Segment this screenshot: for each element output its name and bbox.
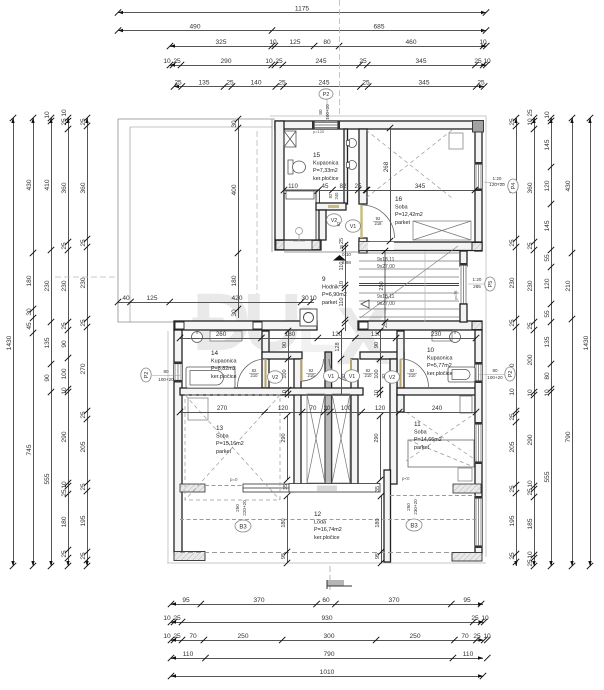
svg-text:V2: V2	[389, 375, 396, 381]
svg-text:82: 82	[381, 373, 386, 379]
svg-text:10: 10	[483, 58, 491, 65]
nightstand room16	[449, 133, 463, 149]
cabinet room10	[432, 331, 452, 341]
svg-text:230+20: 230+20	[413, 499, 418, 515]
svg-text:p=75: p=75	[453, 290, 458, 300]
room 13 label	[216, 425, 244, 455]
svg-text:Hodnik: Hodnik	[322, 285, 339, 291]
svg-text:285: 285	[473, 284, 481, 289]
svg-text:290: 290	[527, 434, 534, 445]
svg-text:15: 15	[313, 152, 321, 159]
svg-text:290: 290	[374, 433, 380, 442]
svg-text:25: 25	[80, 411, 87, 419]
svg-text:25: 25	[509, 413, 516, 421]
wall left upper	[275, 121, 284, 240]
room16 bottom posts	[472, 243, 482, 251]
svg-text:10: 10	[479, 39, 487, 46]
svg-text:25: 25	[80, 118, 87, 126]
svg-text:10: 10	[527, 480, 534, 488]
svg-text:B3: B3	[239, 525, 247, 531]
svg-text:1430: 1430	[6, 335, 13, 350]
hodnik north thin edge	[284, 251, 359, 253]
svg-text:70: 70	[310, 405, 317, 412]
B3 annotation left	[235, 500, 251, 532]
B3 annotation right	[406, 499, 422, 531]
svg-text:140: 140	[250, 80, 261, 87]
svg-text:P=7,33m2: P=7,33m2	[313, 168, 338, 174]
svg-text:210: 210	[565, 280, 572, 291]
room 16 label	[395, 196, 423, 226]
dim col right colE	[583, 115, 593, 569]
svg-text:16: 16	[395, 196, 403, 203]
svg-text:25: 25	[527, 242, 534, 250]
P2 annotation right wall	[478, 367, 515, 381]
label V1 room16	[346, 220, 361, 232]
dim col dim loggia R	[375, 486, 384, 566]
svg-text:120: 120	[544, 278, 551, 289]
dim row bottom rowA	[168, 597, 485, 607]
svg-text:240: 240	[432, 405, 443, 412]
svg-text:180: 180	[61, 516, 68, 527]
svg-text:490: 490	[189, 24, 200, 31]
svg-text:25: 25	[527, 559, 534, 567]
svg-text:35: 35	[283, 484, 289, 490]
door spec 92/218	[373, 216, 383, 226]
svg-text:P2: P2	[323, 92, 330, 98]
window room14 left	[174, 362, 183, 383]
terrace outline	[118, 119, 275, 322]
room16 bottom hatch post	[359, 242, 369, 251]
svg-text:70: 70	[189, 633, 197, 640]
door V2 room10	[401, 359, 429, 387]
svg-text:230: 230	[44, 280, 51, 291]
shower partition room15	[284, 190, 320, 240]
svg-text:685: 685	[373, 24, 384, 31]
svg-text:80: 80	[492, 368, 498, 373]
dim col dim hodnik v	[339, 238, 348, 331]
svg-text:410: 410	[44, 179, 51, 190]
svg-text:25: 25	[474, 58, 482, 65]
dim row top row5	[171, 80, 488, 90]
dim row bottom rowE	[168, 669, 486, 679]
label V2 right	[385, 371, 400, 383]
svg-text:25: 25	[80, 483, 87, 491]
svg-text:345: 345	[415, 183, 426, 190]
svg-text:135: 135	[198, 80, 209, 87]
svg-text:10: 10	[481, 615, 489, 622]
wall niche vert	[319, 210, 326, 240]
door spec 92/210	[306, 368, 316, 378]
dim col right colC	[544, 111, 554, 569]
svg-text:10: 10	[61, 481, 68, 489]
svg-text:250: 250	[379, 281, 385, 290]
svg-text:10: 10	[61, 387, 68, 395]
svg-text:230: 230	[527, 280, 534, 291]
dim row top 490/685	[115, 24, 489, 34]
svg-text:10: 10	[44, 111, 51, 119]
svg-text:205: 205	[80, 441, 87, 452]
svg-text:80: 80	[163, 369, 169, 374]
svg-text:25: 25	[80, 239, 87, 247]
wall right lower	[475, 330, 482, 553]
window room10 right	[475, 362, 483, 383]
svg-text:25: 25	[509, 239, 516, 247]
dim row dim room16	[364, 183, 478, 193]
svg-text:1430: 1430	[583, 335, 590, 350]
svg-text:270: 270	[217, 405, 228, 412]
svg-text:100: 100	[282, 369, 288, 378]
svg-text:90: 90	[282, 342, 288, 348]
svg-text:10: 10	[544, 389, 551, 397]
door spec 82/210	[407, 368, 417, 378]
svg-text:60: 60	[322, 597, 330, 604]
wall mid band left	[174, 321, 317, 330]
svg-text:268: 268	[383, 161, 390, 172]
svg-text:9: 9	[322, 276, 326, 283]
toilet room15	[288, 160, 306, 174]
dim col right colD	[565, 115, 575, 569]
svg-text:10: 10	[427, 347, 435, 354]
svg-text:100+20: 100+20	[158, 377, 174, 382]
svg-text:P=12,42m2: P=12,42m2	[395, 212, 423, 218]
svg-text:370: 370	[388, 597, 399, 604]
svg-text:80: 80	[544, 372, 551, 380]
svg-text:90: 90	[61, 340, 68, 348]
svg-text:1:20: 1:20	[473, 277, 482, 282]
svg-text:25: 25	[471, 615, 479, 622]
shaft left box	[307, 394, 325, 483]
wall shaft mid	[325, 352, 332, 484]
svg-text:290: 290	[220, 58, 231, 65]
svg-text:230: 230	[80, 277, 87, 288]
svg-text:20: 20	[324, 405, 331, 412]
svg-text:25: 25	[509, 118, 516, 126]
svg-text:0,10: 0,10	[342, 252, 351, 257]
svg-text:2,98: 2,98	[342, 260, 351, 265]
dim col left col5	[80, 115, 90, 569]
svg-text:930: 930	[321, 615, 332, 622]
svg-text:25: 25	[61, 242, 68, 250]
svg-text:40: 40	[122, 295, 130, 302]
parapet band room13	[180, 484, 481, 494]
svg-text:P=5,77m2: P=5,77m2	[427, 363, 452, 369]
P4 annotation right	[484, 176, 518, 193]
svg-text:92: 92	[336, 221, 341, 226]
svg-text:Kupaonica: Kupaonica	[211, 359, 236, 365]
svg-text:35: 35	[375, 486, 381, 492]
svg-text:30: 30	[231, 120, 238, 128]
svg-text:110: 110	[288, 183, 298, 190]
svg-text:230: 230	[509, 277, 516, 288]
svg-text:250: 250	[237, 633, 248, 640]
wall shaft right	[351, 359, 358, 484]
svg-text:400: 400	[231, 184, 238, 195]
door spec 82/210	[363, 368, 373, 378]
label V1 left	[324, 370, 339, 382]
svg-text:220+20: 220+20	[242, 500, 247, 516]
wall corridor topR	[360, 352, 404, 359]
svg-text:Kupaonica: Kupaonica	[427, 356, 452, 362]
svg-text:V1: V1	[350, 224, 357, 230]
svg-text:13: 13	[216, 425, 224, 432]
svg-text:P=8,82m2: P=8,82m2	[211, 366, 236, 372]
svg-text:260: 260	[216, 331, 227, 338]
svg-text:25: 25	[339, 238, 345, 244]
dim col left col4	[61, 109, 71, 569]
svg-text:ker.pločice: ker.pločice	[211, 374, 236, 380]
svg-text:p<0: p<0	[402, 476, 410, 481]
svg-text:25: 25	[275, 58, 283, 65]
room15 bottom hatch posts	[276, 241, 284, 250]
stairs direction triangle	[361, 300, 369, 308]
svg-text:240: 240	[334, 192, 339, 200]
svg-text:25: 25	[509, 485, 516, 493]
svg-text:25: 25	[61, 322, 68, 330]
dim col left 1430	[6, 115, 16, 569]
svg-text:290: 290	[281, 433, 287, 442]
svg-text:25: 25	[173, 58, 181, 65]
svg-text:45: 45	[322, 183, 329, 190]
wall loggia divider	[384, 470, 391, 562]
svg-text:555: 555	[44, 473, 51, 484]
svg-text:25: 25	[174, 80, 182, 87]
svg-text:25: 25	[509, 552, 516, 560]
svg-text:55: 55	[544, 254, 551, 262]
svg-text:370: 370	[253, 597, 264, 604]
dim col dim room13 v	[281, 413, 290, 483]
svg-text:100: 100	[374, 369, 380, 378]
svg-text:345: 345	[418, 80, 429, 87]
svg-text:70: 70	[461, 633, 469, 640]
svg-text:10: 10	[544, 111, 551, 119]
svg-text:ker.pločice: ker.pločice	[314, 535, 339, 541]
svg-text:25: 25	[173, 615, 181, 622]
svg-text:10: 10	[374, 390, 380, 396]
svg-text:10: 10	[282, 390, 288, 396]
svg-text:25: 25	[278, 80, 286, 87]
vanity room15	[286, 191, 314, 199]
wall room10 left	[397, 331, 404, 388]
svg-text:345: 345	[415, 58, 426, 65]
svg-text:230: 230	[61, 280, 68, 291]
svg-text:245: 245	[318, 80, 329, 87]
washbasins niche	[347, 139, 357, 170]
corner block top right	[473, 121, 484, 133]
svg-text:55: 55	[544, 310, 551, 318]
svg-text:V1: V1	[349, 374, 356, 380]
wall top exterior	[275, 121, 482, 129]
dim col left col2	[26, 115, 36, 569]
svg-text:parket: parket	[216, 449, 231, 455]
door V2 room14	[238, 359, 266, 387]
dim col dim room16 v	[383, 125, 393, 244]
svg-text:25: 25	[359, 58, 367, 65]
svg-text:82: 82	[340, 183, 347, 190]
wall room14 right	[262, 331, 269, 388]
bed room16	[413, 221, 471, 240]
svg-text:100: 100	[341, 405, 352, 412]
svg-text:245: 245	[315, 58, 326, 65]
svg-text:45: 45	[26, 322, 33, 330]
wall room11 top	[397, 395, 404, 412]
svg-text:10: 10	[265, 58, 273, 65]
dim col dim loggia L	[281, 493, 290, 566]
svg-text:25: 25	[477, 80, 485, 87]
bed room13 dashed	[185, 395, 280, 500]
svg-text:25: 25	[527, 109, 534, 117]
cabinet room14	[210, 331, 242, 341]
svg-text:P=16,74m2: P=16,74m2	[314, 527, 342, 533]
svg-text:145: 145	[544, 139, 551, 150]
door V1 right	[329, 359, 351, 381]
svg-text:25: 25	[80, 552, 87, 560]
dim col terrace col	[231, 116, 241, 318]
wall stairwell right lower	[460, 304, 467, 322]
svg-text:25: 25	[527, 322, 534, 330]
wall niche horiz	[316, 203, 346, 210]
room 12 label	[314, 511, 342, 541]
svg-text:12: 12	[314, 511, 322, 518]
svg-text:120+20: 120+20	[489, 182, 505, 187]
svg-text:9x18,11: 9x18,11	[377, 294, 395, 300]
wall right upper	[475, 121, 482, 251]
svg-text:P=6,90m2: P=6,90m2	[322, 292, 347, 298]
svg-text:Soba: Soba	[216, 434, 229, 440]
wall room16 left top	[359, 129, 367, 204]
P2 top annotation	[318, 89, 333, 121]
wall room15 right	[344, 129, 348, 204]
nightstand room13	[188, 398, 208, 420]
door V1 left	[302, 359, 324, 381]
svg-text:80: 80	[318, 109, 323, 115]
svg-text:460: 460	[405, 39, 416, 46]
svg-text:V1: V1	[328, 374, 335, 380]
dim row bottom rowD	[168, 651, 491, 661]
shower drain room15	[293, 228, 305, 242]
dim row top row4	[163, 58, 491, 68]
svg-text:555: 555	[544, 471, 551, 482]
svg-text:10: 10	[527, 118, 534, 126]
svg-text:420: 420	[231, 295, 242, 302]
svg-text:10: 10	[163, 633, 171, 640]
svg-text:120: 120	[375, 405, 386, 412]
svg-text:P2: P2	[508, 371, 514, 378]
svg-text:30: 30	[231, 309, 238, 317]
svg-text:25: 25	[61, 118, 68, 126]
svg-text:25: 25	[80, 319, 87, 327]
wall room14 bottom	[180, 388, 363, 395]
wall corridor right	[390, 359, 397, 484]
wall stairwell right upper	[460, 251, 467, 266]
svg-text:14: 14	[211, 350, 219, 357]
room 14 label	[211, 350, 236, 380]
washbasin room14	[192, 331, 203, 343]
svg-text:92: 92	[328, 193, 333, 198]
svg-text:135: 135	[44, 337, 51, 348]
label V2 niche	[327, 214, 342, 226]
svg-text:195: 195	[509, 515, 516, 526]
svg-text:10: 10	[527, 551, 534, 559]
svg-text:P5: P5	[488, 281, 494, 288]
P5 annotation right	[453, 277, 495, 300]
svg-text:25: 25	[473, 633, 481, 640]
svg-text:430: 430	[26, 179, 33, 190]
thin offset outline around building	[167, 116, 486, 563]
P2 annotation left wall	[141, 368, 180, 382]
top wall posts/window	[276, 121, 341, 129]
svg-text:250: 250	[406, 503, 411, 511]
room 10 label	[427, 347, 452, 377]
loggia bottom corner L	[174, 552, 205, 561]
svg-text:9x27,00: 9x27,00	[377, 301, 395, 307]
washing machine hodnik	[300, 309, 317, 326]
svg-text:25: 25	[61, 550, 68, 558]
wall left lower	[174, 330, 182, 552]
mid band posts	[175, 322, 482, 330]
wall room10 bottom	[397, 388, 476, 395]
svg-text:360: 360	[527, 182, 534, 193]
svg-text:180: 180	[375, 518, 381, 527]
svg-text:100+20: 100+20	[325, 104, 330, 120]
dim col dim corr v2	[374, 413, 383, 483]
svg-text:430: 430	[565, 180, 572, 191]
svg-text:745: 745	[26, 444, 33, 455]
svg-text:205: 205	[509, 441, 516, 452]
svg-text:325: 325	[215, 39, 226, 46]
svg-text:10: 10	[527, 389, 534, 397]
room 15 label	[313, 152, 338, 182]
svg-text:135: 135	[544, 336, 551, 347]
svg-text:110: 110	[463, 651, 474, 658]
dim row dim corr top	[177, 331, 479, 341]
window room11 right	[475, 422, 483, 464]
svg-text:250: 250	[235, 504, 240, 512]
svg-text:10: 10	[339, 281, 345, 287]
dim row dim room15	[281, 183, 370, 193]
svg-text:180: 180	[281, 518, 287, 527]
svg-text:110: 110	[339, 298, 345, 307]
svg-text:95: 95	[463, 597, 471, 604]
svg-text:95: 95	[375, 553, 381, 559]
svg-text:180: 180	[26, 275, 33, 286]
svg-text:90: 90	[44, 374, 51, 382]
svg-text:1010: 1010	[320, 669, 335, 676]
svg-text:30: 30	[26, 308, 33, 316]
svg-text:11: 11	[414, 421, 421, 428]
svg-text:250: 250	[409, 633, 420, 640]
dim col right colA	[509, 115, 519, 566]
svg-text:790: 790	[323, 651, 334, 658]
svg-text:ker.pločice: ker.pločice	[313, 176, 338, 182]
level mark hodnik	[333, 252, 351, 265]
svg-text:200: 200	[527, 354, 534, 365]
dim col dim corr 90	[282, 328, 291, 398]
door spec 82/210	[249, 368, 259, 378]
svg-text:P4: P4	[511, 183, 517, 190]
closet room11 dashed	[406, 412, 477, 461]
washbasin room10	[450, 331, 461, 343]
section mark bottom	[327, 566, 352, 590]
dim col dim corr 128	[335, 328, 344, 394]
dim row top row3	[167, 39, 490, 49]
cabinet room11 top right	[460, 396, 472, 413]
nightstand room11	[458, 468, 472, 481]
svg-text:9x18,11: 9x18,11	[377, 257, 395, 263]
section dash line top	[55, 0, 340, 322]
svg-text:10: 10	[61, 109, 68, 117]
svg-text:P2: P2	[144, 372, 150, 379]
svg-text:110: 110	[183, 651, 194, 658]
